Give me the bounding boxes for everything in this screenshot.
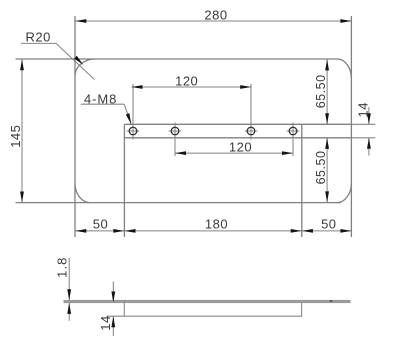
svg-text:4-M8: 4-M8 <box>84 91 117 106</box>
svg-text:280: 280 <box>204 7 227 22</box>
svg-text:14: 14 <box>98 315 113 330</box>
svg-text:180: 180 <box>205 217 228 232</box>
svg-text:R20: R20 <box>26 29 51 44</box>
svg-text:120: 120 <box>229 140 252 155</box>
svg-text:65.50: 65.50 <box>314 74 328 108</box>
svg-text:14: 14 <box>356 102 371 117</box>
svg-text:120: 120 <box>175 73 198 88</box>
svg-text:65.50: 65.50 <box>314 151 328 185</box>
svg-text:1.8: 1.8 <box>55 257 70 278</box>
svg-text:145: 145 <box>8 125 23 148</box>
svg-text:50: 50 <box>93 217 108 232</box>
svg-text:50: 50 <box>321 217 336 232</box>
